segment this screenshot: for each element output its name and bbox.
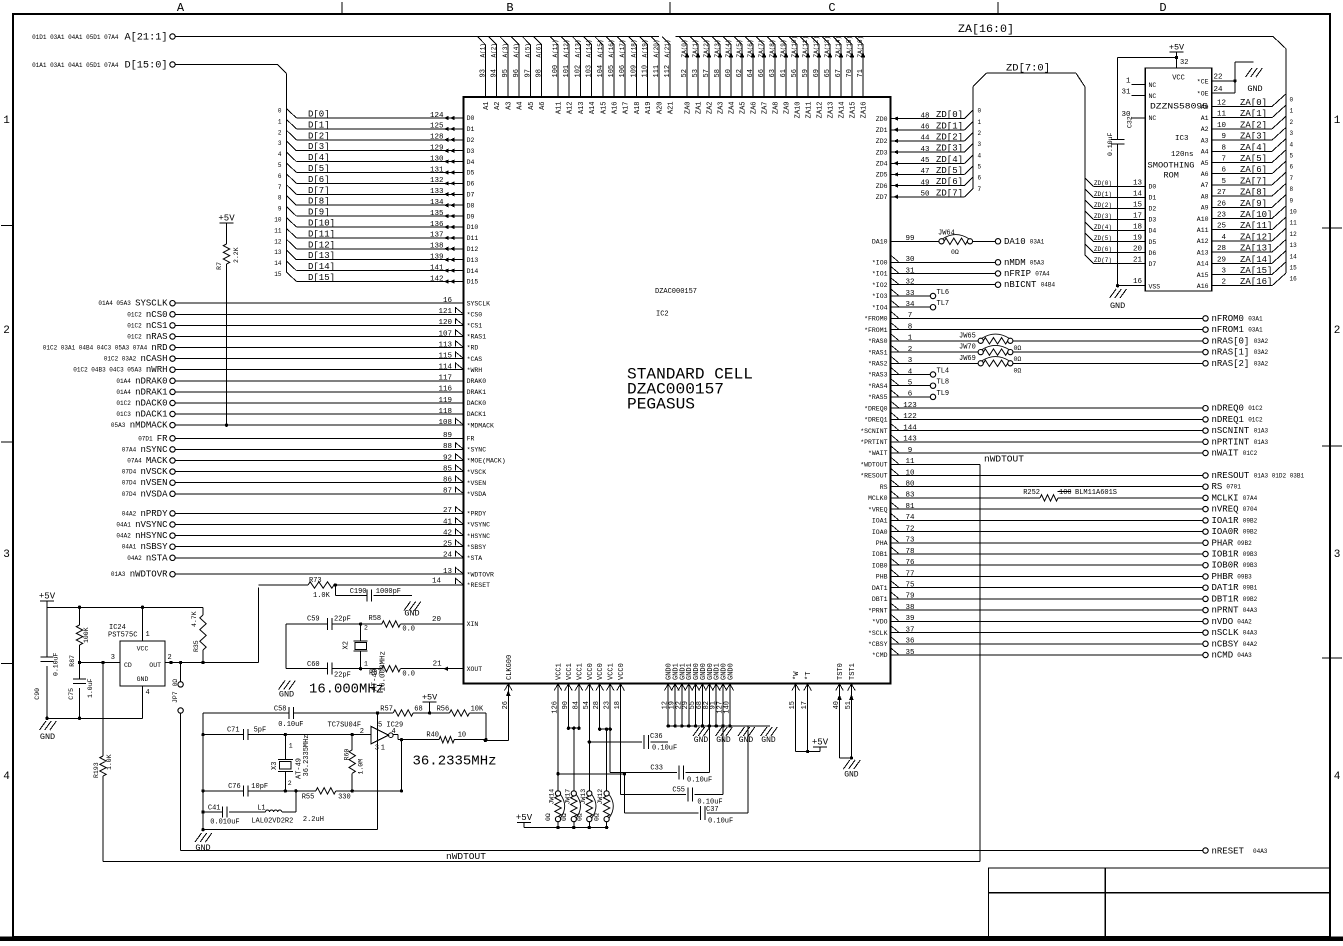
svg-text:0704: 0704 — [1243, 506, 1258, 513]
svg-text:nWDTOUT: nWDTOUT — [984, 453, 1024, 464]
svg-text:D2: D2 — [1149, 206, 1157, 213]
svg-text:07A4: 07A4 — [122, 446, 137, 453]
svg-text:ZD(3): ZD(3) — [1094, 213, 1112, 220]
svg-text:124: 124 — [430, 112, 444, 120]
svg-text:TST0: TST0 — [837, 663, 845, 680]
svg-text:ZA[9]: ZA[9] — [1240, 199, 1267, 209]
svg-text:69: 69 — [813, 69, 821, 77]
svg-text:A20: A20 — [656, 102, 664, 115]
svg-text:15: 15 — [274, 271, 282, 278]
svg-text:D[3]: D[3] — [308, 142, 330, 152]
svg-text:7: 7 — [1221, 156, 1226, 164]
svg-text:330: 330 — [338, 794, 351, 802]
svg-text:2: 2 — [1290, 119, 1294, 126]
svg-text:ZA[6]: ZA[6] — [1240, 165, 1267, 175]
svg-text:A[21:1]: A[21:1] — [125, 32, 168, 44]
svg-text:nWDTOUT: nWDTOUT — [446, 851, 486, 862]
svg-text:16.000MHz: 16.000MHz — [309, 682, 384, 698]
svg-text:D9: D9 — [467, 213, 475, 220]
svg-text:TC7SU04F: TC7SU04F — [328, 721, 362, 729]
svg-text:65: 65 — [824, 69, 832, 77]
svg-text:03A2: 03A2 — [1254, 338, 1269, 345]
svg-text:16: 16 — [1133, 278, 1143, 286]
svg-text:9: 9 — [1290, 197, 1294, 204]
svg-text:13: 13 — [1133, 179, 1143, 187]
svg-text:*CBSY: *CBSY — [868, 641, 888, 648]
svg-text:04B4: 04B4 — [1041, 282, 1056, 289]
svg-text:DA10: DA10 — [872, 239, 888, 246]
svg-text:119: 119 — [438, 397, 452, 405]
svg-text:ZD7: ZD7 — [876, 194, 888, 201]
svg-text:1: 1 — [278, 118, 282, 125]
svg-text:49: 49 — [920, 179, 929, 187]
svg-text:05A3: 05A3 — [1030, 259, 1045, 266]
svg-text:4: 4 — [3, 771, 10, 783]
svg-text:R73: R73 — [309, 577, 322, 585]
svg-text:21: 21 — [1133, 257, 1143, 265]
svg-text:10K: 10K — [471, 706, 484, 714]
svg-text:8: 8 — [1290, 186, 1294, 193]
svg-text:A18: A18 — [634, 102, 642, 115]
svg-text:nDRAK1: nDRAK1 — [135, 387, 167, 397]
svg-text:11: 11 — [1290, 220, 1298, 227]
svg-text:*VDO: *VDO — [872, 619, 888, 626]
svg-text:0.10uF: 0.10uF — [708, 818, 733, 826]
svg-text:A(1): A(1) — [479, 43, 486, 57]
svg-text:ZD[1]: ZD[1] — [936, 121, 963, 131]
svg-text:1: 1 — [146, 631, 150, 639]
svg-text:ZA15: ZA15 — [850, 102, 858, 119]
svg-text:114: 114 — [438, 364, 452, 372]
svg-text:*RAS3: *RAS3 — [868, 372, 888, 379]
svg-text:ZD(6): ZD(6) — [1094, 246, 1112, 253]
svg-text:VCC0: VCC0 — [587, 663, 595, 680]
svg-text:13: 13 — [443, 568, 453, 576]
svg-text:74: 74 — [905, 514, 915, 522]
svg-text:*SBSY: *SBSY — [467, 544, 487, 551]
svg-text:D3: D3 — [467, 148, 475, 155]
svg-text:64: 64 — [747, 69, 755, 77]
svg-text:11: 11 — [274, 227, 282, 234]
svg-text:2: 2 — [360, 728, 364, 736]
svg-text:38: 38 — [905, 604, 914, 612]
svg-text:44: 44 — [920, 135, 930, 143]
svg-text:nVSEN: nVSEN — [140, 478, 167, 488]
svg-text:14: 14 — [432, 578, 442, 586]
svg-text:nRD: nRD — [151, 343, 167, 353]
svg-text:*FROM1: *FROM1 — [864, 327, 888, 334]
svg-text:5: 5 — [908, 380, 913, 388]
svg-text:D[15]: D[15] — [308, 273, 335, 283]
svg-text:GND: GND — [279, 690, 294, 700]
svg-text:C33: C33 — [650, 765, 663, 773]
svg-text:24: 24 — [1214, 86, 1224, 94]
svg-text:01D1 03A1 04A1 05D1 07A4: 01D1 03A1 04A1 05D1 07A4 — [32, 34, 119, 41]
svg-text:ZA16: ZA16 — [861, 102, 869, 119]
svg-text:2.2uH: 2.2uH — [303, 816, 324, 824]
svg-text:04A2: 04A2 — [116, 533, 131, 540]
svg-text:D4: D4 — [467, 159, 475, 166]
svg-text:ZD[3]: ZD[3] — [936, 144, 963, 154]
svg-text:31: 31 — [905, 267, 915, 275]
svg-text:DACK0: DACK0 — [467, 400, 487, 407]
svg-text:NC: NC — [1149, 93, 1157, 100]
svg-text:09B3: 09B3 — [1243, 551, 1258, 558]
svg-text:A8: A8 — [1201, 193, 1209, 200]
svg-text:96: 96 — [513, 69, 521, 77]
svg-text:*IO3: *IO3 — [872, 293, 888, 300]
svg-text:61: 61 — [780, 69, 788, 77]
svg-text:A(21): A(21) — [664, 39, 671, 57]
svg-text:LAL02VD2R2: LAL02VD2R2 — [251, 818, 293, 826]
svg-text:1.0M: 1.0M — [358, 759, 365, 775]
svg-text:16: 16 — [443, 297, 453, 305]
svg-text:45: 45 — [920, 157, 930, 165]
svg-text:3: 3 — [278, 140, 282, 147]
svg-text:115: 115 — [438, 352, 452, 360]
svg-text:03A1: 03A1 — [1248, 327, 1263, 334]
svg-text:10pF: 10pF — [251, 783, 268, 791]
svg-text:ZD[7]: ZD[7] — [936, 188, 963, 198]
svg-text:6: 6 — [978, 175, 982, 182]
svg-text:nRAS[1]: nRAS[1] — [1212, 348, 1250, 358]
svg-text:*VREQ: *VREQ — [868, 506, 888, 513]
svg-text:0Ω: 0Ω — [561, 813, 568, 821]
svg-text:31: 31 — [1121, 89, 1131, 97]
svg-text:07A4: 07A4 — [1243, 495, 1258, 502]
svg-text:04A2: 04A2 — [1237, 618, 1252, 625]
svg-text:ZA[7]: ZA[7] — [1240, 176, 1267, 186]
svg-text:ZD5: ZD5 — [876, 172, 888, 179]
svg-text:JP7: JP7 — [172, 691, 179, 703]
svg-text:*HSYNC: *HSYNC — [467, 533, 491, 540]
svg-text:nVREQ: nVREQ — [1212, 505, 1239, 515]
svg-text:IOB0R: IOB0R — [1212, 561, 1240, 571]
svg-text:*RAS2: *RAS2 — [868, 361, 888, 368]
svg-text:*CS0: *CS0 — [467, 312, 483, 319]
svg-text:3: 3 — [1334, 549, 1341, 561]
svg-text:142: 142 — [430, 275, 444, 283]
svg-text:104: 104 — [597, 65, 605, 78]
svg-text:ZA6: ZA6 — [751, 102, 759, 115]
svg-text:nMDMACK: nMDMACK — [130, 421, 168, 431]
svg-text:01A1 03A1 04A1 05D1 07A4: 01A1 03A1 04A1 05D1 07A4 — [32, 62, 119, 69]
svg-text:JW14: JW14 — [549, 789, 556, 805]
svg-text:NC: NC — [1149, 115, 1157, 122]
svg-text:12: 12 — [1217, 100, 1226, 108]
svg-text:D[11]: D[11] — [308, 229, 335, 239]
svg-text:IOA0: IOA0 — [872, 529, 888, 536]
svg-text:A2: A2 — [494, 102, 502, 110]
svg-text:4: 4 — [908, 368, 913, 376]
svg-text:8: 8 — [908, 323, 913, 331]
svg-text:C60: C60 — [307, 661, 320, 669]
svg-text:ZD0: ZD0 — [876, 116, 888, 123]
svg-text:R56: R56 — [437, 706, 450, 714]
svg-text:VCC1: VCC1 — [566, 663, 574, 680]
svg-text:*IO4: *IO4 — [872, 304, 888, 311]
svg-text:GND: GND — [716, 736, 731, 745]
svg-text:2: 2 — [278, 129, 282, 136]
svg-text:10: 10 — [1290, 209, 1298, 216]
svg-text:25: 25 — [1217, 223, 1227, 231]
svg-text:120ns: 120ns — [1171, 151, 1194, 159]
svg-text:100K: 100K — [83, 627, 90, 643]
svg-text:nCS1: nCS1 — [146, 321, 168, 331]
svg-text:14: 14 — [1290, 253, 1298, 260]
svg-text:*IO0: *IO0 — [872, 260, 888, 267]
svg-text:R40: R40 — [426, 732, 439, 740]
svg-text:nDREQ0: nDREQ0 — [1212, 404, 1244, 414]
svg-text:nCS0: nCS0 — [146, 310, 168, 320]
svg-text:07A4: 07A4 — [127, 458, 142, 465]
svg-text:JW12: JW12 — [597, 789, 604, 805]
svg-text:85: 85 — [443, 465, 453, 473]
svg-text:DZZNS58095: DZZNS58095 — [1150, 103, 1208, 112]
svg-text:*PRDY: *PRDY — [467, 511, 487, 518]
svg-text:D3: D3 — [1149, 217, 1157, 224]
svg-text:nSCNINT: nSCNINT — [1212, 426, 1250, 436]
svg-text:94: 94 — [491, 69, 499, 77]
svg-text:0.10uF: 0.10uF — [687, 777, 712, 785]
svg-text:144: 144 — [903, 424, 917, 432]
svg-text:ZA[14]: ZA[14] — [1240, 255, 1272, 265]
svg-text:nCASH: nCASH — [140, 354, 167, 364]
svg-text:04A3: 04A3 — [1243, 630, 1258, 637]
svg-text:9: 9 — [1221, 133, 1226, 141]
svg-text:nFROM1: nFROM1 — [1212, 325, 1244, 335]
svg-text:ZD[2]: ZD[2] — [936, 132, 963, 142]
svg-text:66: 66 — [758, 69, 766, 77]
svg-text:RS: RS — [880, 484, 888, 491]
svg-text:GND: GND — [195, 843, 210, 853]
svg-text:09B1: 09B1 — [1243, 585, 1258, 592]
svg-text:7: 7 — [1290, 175, 1294, 182]
svg-text:4: 4 — [278, 151, 282, 158]
svg-text:D[4]: D[4] — [308, 153, 330, 163]
svg-text:+5V: +5V — [516, 813, 533, 823]
svg-text:IC3: IC3 — [1175, 135, 1189, 143]
svg-text:D[10]: D[10] — [308, 219, 335, 229]
svg-text:0Ω: 0Ω — [951, 249, 959, 256]
svg-text:TL4: TL4 — [937, 368, 950, 376]
svg-text:A12: A12 — [567, 102, 575, 115]
svg-text:+5V: +5V — [1169, 43, 1185, 53]
svg-text:D[5]: D[5] — [308, 164, 330, 174]
svg-text:14: 14 — [274, 260, 282, 267]
svg-text:ZA[0]: ZA[0] — [1240, 98, 1267, 108]
svg-text:14: 14 — [1133, 190, 1143, 198]
svg-text:A6: A6 — [1201, 171, 1209, 178]
svg-text:nSBSY: nSBSY — [140, 542, 168, 552]
svg-text:5: 5 — [1221, 178, 1226, 186]
svg-text:122: 122 — [903, 413, 917, 421]
svg-text:07D1: 07D1 — [138, 435, 153, 442]
svg-text:01C2 03A1 04B4 04C3 05A3 07A4: 01C2 03A1 04B4 04C3 05A3 07A4 — [43, 345, 148, 352]
svg-text:04A3: 04A3 — [1253, 848, 1268, 855]
svg-text:5pF: 5pF — [254, 727, 267, 735]
svg-text:nRAS[2]: nRAS[2] — [1212, 359, 1250, 369]
svg-text:37: 37 — [905, 626, 914, 634]
svg-text:+5V: +5V — [812, 738, 829, 748]
svg-text:PHB: PHB — [876, 574, 888, 581]
svg-text:nVSCK: nVSCK — [140, 467, 168, 477]
svg-text:nDACK0: nDACK0 — [135, 399, 167, 409]
svg-text:1: 1 — [1126, 78, 1131, 86]
svg-text:nWAIT: nWAIT — [1212, 449, 1240, 459]
svg-text:A16: A16 — [1197, 283, 1209, 290]
svg-text:*CE: *CE — [1197, 78, 1209, 85]
svg-text:ZA11: ZA11 — [806, 102, 814, 119]
svg-text:D: D — [1159, 1, 1166, 15]
svg-text:A15: A15 — [1197, 272, 1209, 279]
svg-text:*CMD: *CMD — [872, 652, 888, 659]
svg-text:+5V: +5V — [218, 214, 235, 224]
svg-text:133: 133 — [430, 188, 444, 196]
svg-text:ZD[7:0]: ZD[7:0] — [1006, 63, 1050, 75]
svg-text:23: 23 — [1217, 212, 1227, 220]
svg-text:nMDM: nMDM — [1004, 258, 1026, 268]
svg-text:A(4): A(4) — [513, 43, 520, 57]
svg-text:nRESOUT: nRESOUT — [1212, 471, 1250, 481]
svg-text:53: 53 — [692, 69, 700, 77]
svg-text:A(2): A(2) — [491, 43, 498, 57]
svg-text:19: 19 — [1133, 235, 1142, 243]
svg-text:D[13]: D[13] — [308, 251, 335, 261]
svg-text:*OE: *OE — [1197, 91, 1209, 98]
svg-text:120: 120 — [438, 319, 452, 327]
svg-text:ZA1: ZA1 — [696, 102, 704, 115]
svg-text:ZA13: ZA13 — [828, 102, 836, 119]
svg-text:1: 1 — [1334, 115, 1341, 127]
svg-text:D6: D6 — [467, 181, 475, 188]
svg-text:04A1: 04A1 — [122, 544, 137, 551]
svg-text:78: 78 — [905, 548, 914, 556]
svg-text:01C2: 01C2 — [1248, 416, 1263, 423]
svg-text:VCC0: VCC0 — [618, 663, 626, 680]
svg-text:A14: A14 — [1197, 261, 1209, 268]
svg-text:01A4: 01A4 — [116, 389, 131, 396]
svg-text:*RAS1: *RAS1 — [868, 349, 888, 356]
svg-text:1: 1 — [381, 745, 385, 753]
svg-text:D[6]: D[6] — [308, 175, 330, 185]
svg-text:D11: D11 — [467, 235, 479, 242]
svg-text:3: 3 — [3, 549, 10, 561]
svg-text:106: 106 — [619, 65, 627, 78]
svg-text:ZD[0]: ZD[0] — [936, 110, 963, 120]
svg-text:nHSYNC: nHSYNC — [135, 531, 168, 541]
svg-text:46: 46 — [920, 124, 930, 132]
svg-text:ZD[6]: ZD[6] — [936, 177, 963, 187]
svg-text:IOA1R: IOA1R — [1212, 516, 1240, 526]
svg-text:VCC: VCC — [137, 646, 149, 653]
svg-text:*RAS0: *RAS0 — [868, 338, 888, 345]
svg-text:C41: C41 — [208, 805, 221, 813]
svg-text:D[1]: D[1] — [308, 120, 330, 130]
svg-text:*W: *W — [793, 671, 801, 680]
svg-text:30: 30 — [1121, 111, 1131, 119]
svg-text:4: 4 — [1290, 141, 1294, 148]
svg-text:DZAC000157: DZAC000157 — [655, 288, 697, 296]
svg-text:DAT1R: DAT1R — [1212, 583, 1240, 593]
svg-text:nVDO: nVDO — [1212, 617, 1234, 627]
svg-text:*RAS5: *RAS5 — [868, 394, 888, 401]
svg-text:ZA[1]: ZA[1] — [1240, 109, 1267, 119]
svg-text:ZA12: ZA12 — [817, 102, 825, 119]
svg-text:103: 103 — [586, 65, 594, 78]
svg-text:A11: A11 — [555, 102, 563, 115]
svg-text:21: 21 — [433, 661, 443, 669]
svg-text:A(5): A(5) — [524, 43, 531, 57]
svg-text:*VSCK: *VSCK — [467, 469, 487, 476]
svg-text:ZA0: ZA0 — [685, 102, 693, 115]
svg-text:D1: D1 — [1149, 195, 1157, 202]
svg-text:6: 6 — [908, 391, 913, 399]
svg-text:1: 1 — [3, 115, 10, 127]
svg-text:4: 4 — [978, 152, 982, 159]
svg-text:131: 131 — [430, 166, 444, 174]
svg-text:0Ω: 0Ω — [1014, 367, 1022, 374]
svg-text:R35: R35 — [193, 640, 200, 652]
svg-text:C36: C36 — [650, 733, 663, 741]
svg-text:C55: C55 — [672, 787, 685, 795]
svg-text:135: 135 — [430, 210, 444, 218]
svg-text:36: 36 — [905, 638, 915, 646]
svg-text:D8: D8 — [467, 202, 475, 209]
svg-text:ZA[15]: ZA[15] — [1240, 266, 1272, 276]
svg-text:*WDTOVR: *WDTOVR — [467, 571, 494, 578]
svg-text:nSTA: nSTA — [146, 553, 168, 563]
svg-text:ZD(5): ZD(5) — [1094, 235, 1112, 242]
svg-text:*MDMACK: *MDMACK — [467, 422, 494, 429]
svg-text:118: 118 — [438, 408, 452, 416]
svg-text:GND: GND — [40, 732, 55, 742]
svg-text:0.10uF: 0.10uF — [53, 652, 60, 676]
svg-text:A13: A13 — [1197, 249, 1209, 256]
svg-text:ZA[2]: ZA[2] — [1240, 120, 1267, 130]
svg-text:VCC: VCC — [1172, 75, 1185, 83]
svg-text:TL8: TL8 — [937, 379, 950, 387]
svg-text:04A3: 04A3 — [1243, 607, 1258, 614]
svg-text:*RAS4: *RAS4 — [868, 383, 888, 390]
svg-text:R58: R58 — [369, 615, 382, 623]
svg-text:3: 3 — [908, 357, 913, 365]
svg-text:141: 141 — [430, 264, 444, 272]
svg-text:36.2335MHz: 36.2335MHz — [413, 754, 497, 770]
svg-text:TL6: TL6 — [937, 289, 950, 297]
svg-text:JW64: JW64 — [938, 230, 955, 238]
svg-text:121: 121 — [438, 308, 452, 316]
svg-text:C58: C58 — [274, 706, 287, 714]
svg-text:09B3: 09B3 — [1237, 574, 1252, 581]
svg-text:*PRNT: *PRNT — [868, 607, 888, 614]
svg-text:TL9: TL9 — [937, 390, 950, 398]
svg-text:C190: C190 — [350, 588, 367, 596]
svg-text:ZD6: ZD6 — [876, 183, 888, 190]
svg-text:134: 134 — [430, 199, 444, 207]
svg-text:03A2: 03A2 — [1254, 349, 1269, 356]
svg-text:ZD(4): ZD(4) — [1094, 224, 1112, 231]
svg-text:98: 98 — [536, 69, 544, 77]
svg-text:A4: A4 — [1201, 149, 1209, 156]
svg-text:100: 100 — [1059, 489, 1072, 497]
svg-text:110: 110 — [642, 65, 650, 78]
svg-text:ZA3: ZA3 — [718, 102, 726, 115]
svg-text:99: 99 — [905, 235, 914, 243]
svg-text:26: 26 — [1217, 200, 1227, 208]
svg-text:nVSYNC: nVSYNC — [135, 520, 168, 530]
svg-text:IOA1: IOA1 — [872, 518, 888, 525]
